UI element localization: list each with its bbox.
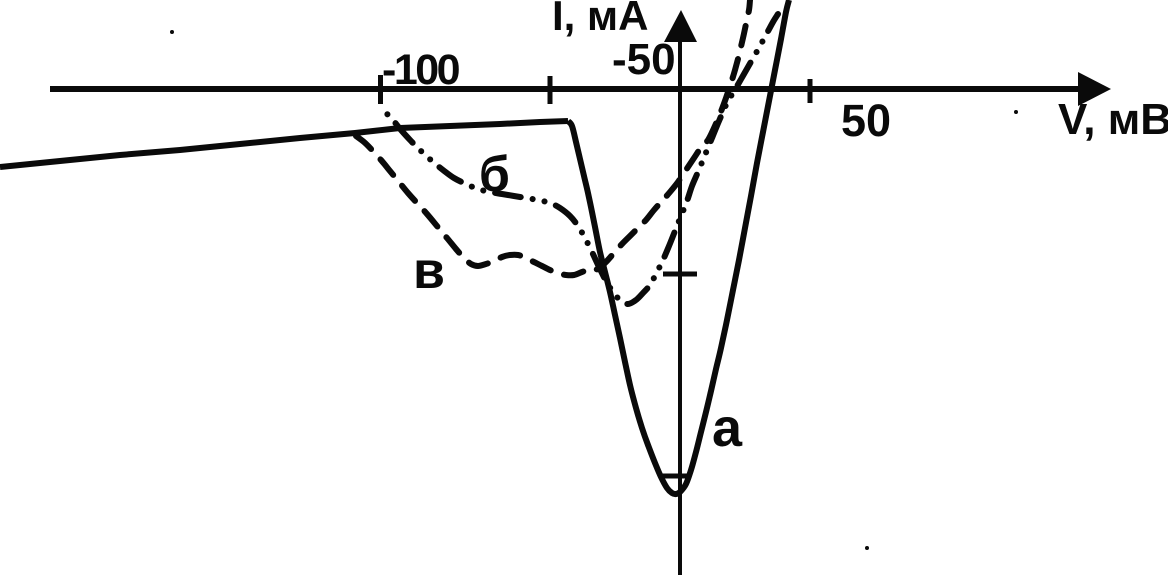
curve v dashed xyxy=(356,0,750,275)
y-axis arrowhead xyxy=(664,10,697,42)
speck xyxy=(1014,110,1018,114)
tick -50 xyxy=(548,76,553,104)
speck xyxy=(865,546,869,550)
tick +50 xyxy=(808,79,813,103)
svg-text:V, мВ: V, мВ xyxy=(1058,95,1168,144)
curve a solid left branch xyxy=(0,121,568,167)
svg-text:I, мА: I, мА xyxy=(552,0,648,39)
x-axis arrowhead xyxy=(1078,72,1111,106)
y-axis (I) xyxy=(678,38,682,575)
x-axis (V) xyxy=(50,86,1082,92)
svg-text:-50: -50 xyxy=(612,35,676,84)
svg-text:а: а xyxy=(712,398,743,458)
tick -100 xyxy=(378,75,383,104)
svg-text:-100: -100 xyxy=(382,46,460,94)
svg-text:50: 50 xyxy=(841,95,891,146)
curve a solid descent and rise xyxy=(568,0,789,494)
y tick lower xyxy=(661,474,690,479)
y tick upper xyxy=(663,272,697,277)
speck xyxy=(170,30,174,34)
svg-text:в: в xyxy=(413,242,445,300)
curve b dash-dot-dot xyxy=(383,14,778,304)
svg-text:б: б xyxy=(479,146,510,202)
